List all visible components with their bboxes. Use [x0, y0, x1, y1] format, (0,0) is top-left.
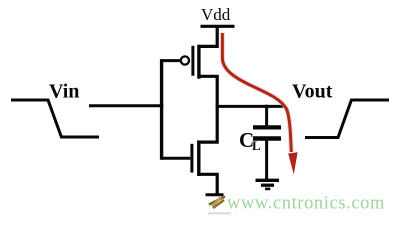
- current arrow head: [288, 152, 297, 174]
- ground (chassis) bar under NMOS: [206, 193, 224, 196]
- label C_L: [239, 128, 261, 153]
- capacitor C_L top plate: [253, 125, 281, 129]
- transistor Q1 PMOS channel bar: [197, 45, 200, 79]
- ground under capacitor bar 2: [261, 184, 274, 187]
- waveform symbol Vin falling edge: [11, 100, 99, 137]
- svg-text:Vin: Vin: [49, 81, 79, 103]
- wire PMOS gate to input trunk: [162, 59, 180, 62]
- ground under capacitor bar 1: [256, 179, 280, 182]
- wire NMOS source to ground: [198, 174, 217, 194]
- wire input trunk vertical: [160, 59, 163, 160]
- wire input horizontal: [89, 104, 163, 107]
- transistor Q2 NMOS channel bar: [197, 140, 200, 176]
- current arrow halo: [222, 33, 291, 152]
- svg-text:Vdd: Vdd: [201, 5, 231, 24]
- ground hatch stroke 3: [212, 198, 221, 207]
- waveform symbol Vout rising edge: [305, 100, 389, 138]
- svg-text:L: L: [252, 138, 261, 153]
- svg-text:Vout: Vout: [292, 81, 333, 103]
- ground hatch stroke 1: [209, 197, 225, 205]
- node output junction / wire to capacitor: [216, 105, 283, 108]
- capacitor C_L top lead: [265, 105, 268, 128]
- capacitor C_L bottom plate: [253, 136, 281, 141]
- ground under capacitor bar 3: [265, 188, 270, 191]
- wire NMOS gate to input trunk: [162, 157, 190, 160]
- svg-text:www.cntronics.com: www.cntronics.com: [227, 194, 385, 214]
- ground hatch stroke 2: [213, 200, 224, 208]
- transistor Q2 NMOS gate bar: [190, 144, 193, 173]
- wire Vdd rail to PMOS source: [198, 26, 217, 46]
- capacitor C_L bottom lead: [265, 139, 268, 181]
- wire PMOS drain to output trunk: [198, 76, 217, 142]
- transistor Q1 PMOS gate bar: [191, 46, 194, 76]
- power rail Vdd: [201, 25, 235, 28]
- ground smudge: [208, 212, 231, 214]
- current arrow (red) curve from Vdd to CL: [222, 33, 291, 152]
- transistor Q1 PMOS gate bubble: [181, 56, 189, 64]
